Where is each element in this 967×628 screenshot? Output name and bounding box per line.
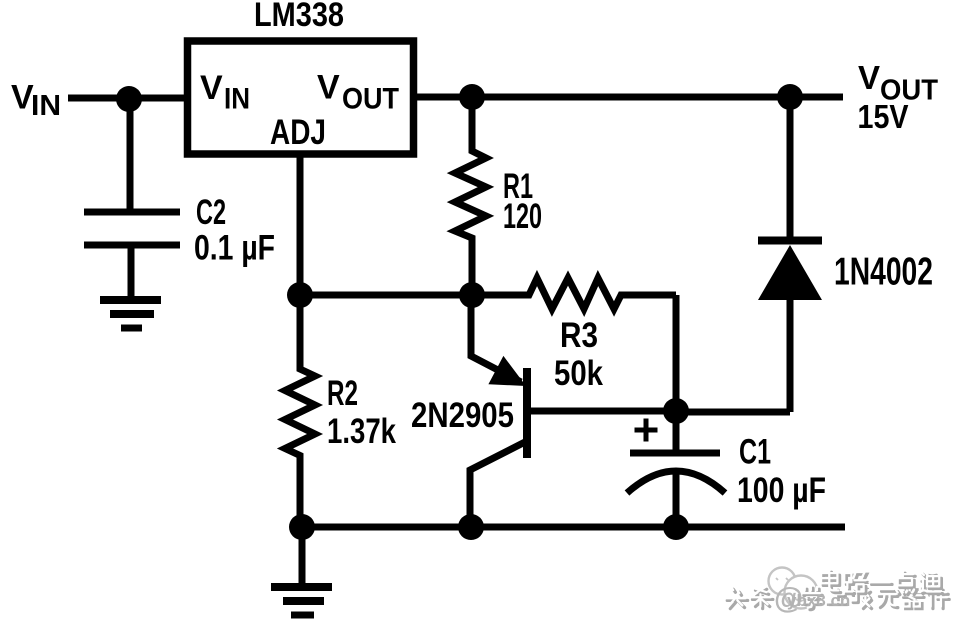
- wire top rail from VOUT pin to right: [414, 94, 843, 101]
- svg-text:C2: C2: [196, 192, 226, 232]
- capacitor C2: [84, 192, 275, 300]
- resistor R2: [285, 295, 315, 527]
- label R3 value: [554, 315, 603, 393]
- watermark: [725, 568, 949, 616]
- node mid rail junction: [459, 282, 485, 308]
- svg-text:0.1 µF: 0.1 µF: [194, 228, 275, 268]
- svg-text:ybx8.cn: ybx8.cn: [787, 591, 850, 610]
- svg-text:C1: C1: [739, 432, 771, 472]
- IC U1 LM338 box: [188, 41, 414, 154]
- node input junction: [116, 86, 142, 112]
- node top rail R1 junction: [459, 84, 485, 110]
- svg-text:V: V: [200, 69, 223, 107]
- wire mid rail ADJ to R1: [300, 292, 472, 299]
- wire bottom rail: [300, 524, 845, 531]
- svg-text:1N4002: 1N4002: [834, 251, 933, 294]
- ground under C2: [100, 300, 161, 328]
- wire input junction down to C2: [127, 99, 134, 211]
- svg-text:R2: R2: [327, 373, 358, 413]
- watermark logo circles: [769, 568, 818, 609]
- pin label VOUT inside box: [317, 69, 399, 116]
- node VIN label: [11, 79, 61, 123]
- svg-text:LM338: LM338: [254, 0, 344, 34]
- watermark text dianlu line: [823, 572, 942, 594]
- svg-text:V: V: [317, 69, 340, 107]
- wire R3 right side down to base node: [673, 295, 680, 411]
- label R2 value: [327, 373, 396, 451]
- svg-text:ADJ: ADJ: [270, 112, 326, 152]
- capacitor C1: [627, 411, 826, 527]
- node ADJ junction: [287, 282, 313, 308]
- svg-text:100 µF: 100 µF: [737, 470, 826, 510]
- wire input from VIN to LM338: [68, 95, 190, 102]
- svg-text:IN: IN: [224, 83, 250, 116]
- node bottom rail collector junction: [458, 514, 484, 540]
- resistor R1: [455, 97, 486, 295]
- wire ADJ pin down: [297, 154, 304, 295]
- svg-text:50k: 50k: [554, 353, 603, 393]
- resistor R3: [472, 278, 676, 309]
- svg-text:2N2905: 2N2905: [411, 395, 514, 435]
- node top rail diode junction: [777, 84, 803, 110]
- label R1 value: [503, 166, 542, 236]
- watermark text toutiao line: [727, 588, 949, 609]
- svg-text:1.37k: 1.37k: [327, 411, 396, 451]
- diode D1 1N4002: [758, 97, 933, 412]
- transistor Q1 2N2905: [411, 295, 676, 527]
- svg-text:V: V: [858, 59, 880, 96]
- node VOUT label right: [858, 59, 939, 135]
- node bottom rail C1 junction: [663, 514, 689, 540]
- ground bottom: [271, 527, 332, 615]
- svg-text:15V: 15V: [858, 98, 909, 135]
- node base junction: [663, 398, 689, 424]
- svg-text:IN: IN: [31, 90, 61, 122]
- pin label VIN inside box: [200, 69, 250, 116]
- svg-text:R3: R3: [560, 315, 598, 355]
- svg-text:120: 120: [503, 196, 542, 236]
- svg-text:OUT: OUT: [342, 83, 399, 116]
- node bottom rail R2 junction: [289, 514, 315, 540]
- wire base node to diode bottom: [676, 409, 790, 416]
